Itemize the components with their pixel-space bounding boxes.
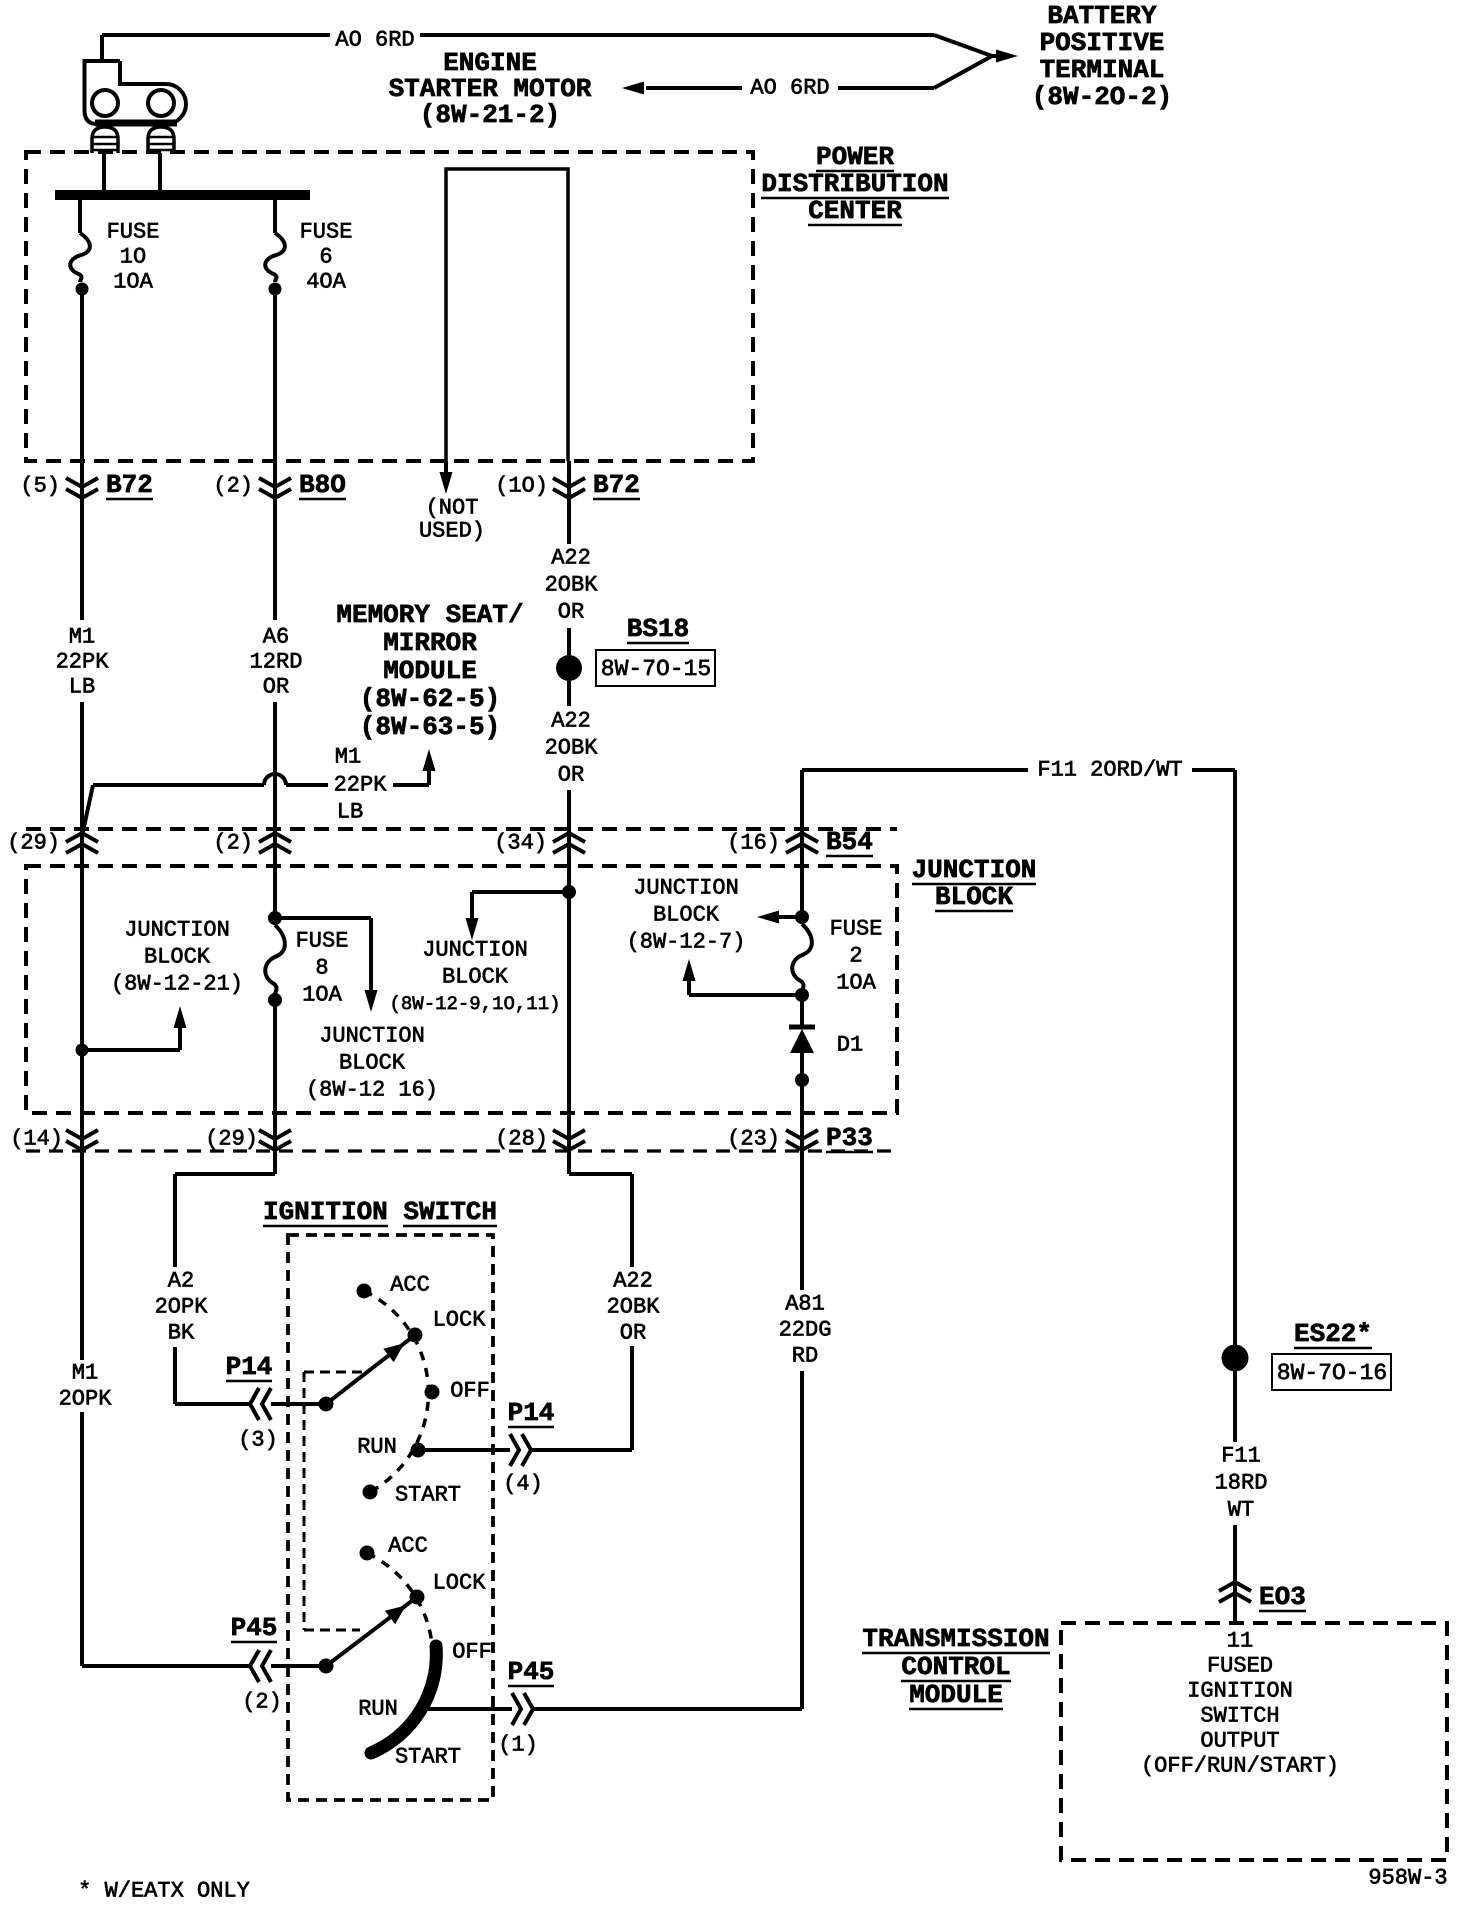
upper wafer LOCK contact xyxy=(408,1328,423,1343)
svg-text:OFF: OFF xyxy=(452,1640,492,1665)
splice dot on A22 wire xyxy=(562,885,576,899)
wire battery terminal to PDC bus xyxy=(102,153,106,191)
svg-text:POSITIVE: POSITIVE xyxy=(1040,28,1165,58)
svg-text:(16): (16) xyxy=(727,831,780,856)
svg-text:MODULE: MODULE xyxy=(383,656,477,686)
svg-text:MEMORY SEAT/: MEMORY SEAT/ xyxy=(336,600,523,630)
connector (28) chevrons xyxy=(553,1130,585,1139)
svg-text:MIRROR: MIRROR xyxy=(383,628,477,658)
upper wafer OFF contact xyxy=(425,1385,440,1400)
upper wafer RUN contact xyxy=(411,1443,426,1458)
svg-text:JUNCTION: JUNCTION xyxy=(912,855,1037,885)
PDC bus bar xyxy=(55,190,310,200)
ignition switch inner dashed corner xyxy=(304,1371,367,1374)
svg-text:BLOCK: BLOCK xyxy=(442,965,509,990)
reference box 8W-70-16 xyxy=(1272,1354,1391,1390)
lower wafer LOCK contact xyxy=(410,1590,425,1605)
svg-text:OR: OR xyxy=(263,675,289,700)
svg-text:FUSED: FUSED xyxy=(1207,1654,1273,1679)
splice dot above fuse 8 xyxy=(268,911,282,925)
svg-text:1OA: 1OA xyxy=(302,983,342,1008)
wire A6 12RD OR xyxy=(273,702,277,920)
svg-text:OFF: OFF xyxy=(450,1379,490,1404)
svg-text:IGNITION SWITCH: IGNITION SWITCH xyxy=(263,1197,497,1227)
svg-text:(3): (3) xyxy=(238,1428,278,1453)
svg-text:1O: 1O xyxy=(120,245,146,270)
svg-text:(8W-63-5): (8W-63-5) xyxy=(360,712,500,742)
connector (29) chevrons xyxy=(66,833,98,842)
svg-text:B8O: B8O xyxy=(299,470,346,500)
svg-text:LB: LB xyxy=(69,675,95,700)
lower wafer ACC contact xyxy=(360,1546,375,1561)
svg-text:22PK: 22PK xyxy=(334,773,388,798)
svg-text:START: START xyxy=(395,1483,461,1508)
splice dot below fuse 2 xyxy=(795,988,809,1002)
svg-text:AO 6RD: AO 6RD xyxy=(335,28,414,53)
arrow up to 8W-12-7 label xyxy=(689,993,802,997)
svg-text:(28): (28) xyxy=(495,1127,548,1152)
svg-text:(8W-12 16): (8W-12 16) xyxy=(306,1078,438,1103)
svg-text:2OBK: 2OBK xyxy=(545,573,599,598)
svg-text:2OPK: 2OPK xyxy=(59,1387,113,1412)
connector B80 cavity 2 chevrons xyxy=(259,478,291,487)
svg-text:(OFF/RUN/START): (OFF/RUN/START) xyxy=(1141,1754,1339,1779)
wire RUN to P14 cavity 4 xyxy=(418,1448,510,1452)
upper wafer wiper pivot xyxy=(319,1397,334,1412)
wire M1 22PK LB xyxy=(80,702,84,1360)
svg-text:BK: BK xyxy=(168,1321,195,1346)
upper wafer wiper arm to LOCK xyxy=(326,1335,415,1404)
connector E03 chevrons xyxy=(1219,1582,1251,1591)
svg-text:(8W-12-21): (8W-12-21) xyxy=(111,972,243,997)
wire fuse6 to connector B80(2) xyxy=(273,289,277,620)
svg-text:(1O): (1O) xyxy=(495,474,548,499)
svg-text:P33: P33 xyxy=(826,1123,873,1153)
wire A0 6RD battery feed (top) xyxy=(102,33,330,37)
svg-text:JUNCTION: JUNCTION xyxy=(124,918,230,943)
svg-text:FUSE: FUSE xyxy=(830,917,883,942)
svg-text:LOCK: LOCK xyxy=(433,1308,487,1333)
lower wafer wiper arm to LOCK xyxy=(326,1597,417,1666)
wire A22 20BK OR to ignition switch xyxy=(532,1448,632,1452)
junction dot below fuse 10 xyxy=(76,283,89,296)
svg-text:22PK: 22PK xyxy=(56,650,110,675)
connector (29) chevrons bottom xyxy=(259,1130,291,1139)
svg-text:(34): (34) xyxy=(494,831,547,856)
svg-text:(29): (29) xyxy=(205,1127,258,1152)
svg-text:BS18: BS18 xyxy=(627,614,689,644)
svg-text:(1): (1) xyxy=(498,1733,538,1758)
svg-text:4OA: 4OA xyxy=(306,270,346,295)
svg-text:CENTER: CENTER xyxy=(808,196,902,226)
svg-text:BLOCK: BLOCK xyxy=(339,1051,406,1076)
svg-text:TRANSMISSION: TRANSMISSION xyxy=(862,1624,1049,1654)
transmission control module dashed box xyxy=(1061,1623,1447,1860)
wire fuse10 to connector B72(5) xyxy=(80,289,84,620)
Power Distribution Center dashed box xyxy=(26,152,753,461)
battery positive terminal connector symbol xyxy=(85,61,187,153)
splice dot on M1 wire xyxy=(76,1044,89,1057)
svg-text:11: 11 xyxy=(1227,1629,1253,1654)
svg-text:(NOT: (NOT xyxy=(426,496,479,521)
svg-text:1OA: 1OA xyxy=(113,270,153,295)
connector B72 cavity 10 chevrons xyxy=(553,478,585,487)
svg-text:DISTRIBUTION: DISTRIBUTION xyxy=(761,169,948,199)
svg-text:BATTERY: BATTERY xyxy=(1047,1,1157,31)
svg-text:M1: M1 xyxy=(69,625,95,650)
svg-text:START: START xyxy=(395,1745,461,1770)
svg-text:(23): (23) xyxy=(727,1127,780,1152)
svg-text:BLOCK: BLOCK xyxy=(935,882,1013,912)
lower wafer wiper pivot xyxy=(319,1659,334,1674)
splice dot below diode xyxy=(795,1073,809,1087)
svg-text:WT: WT xyxy=(1228,1498,1254,1523)
svg-text:(29): (29) xyxy=(7,831,60,856)
wire F11 18RD WT xyxy=(1233,1371,1237,1442)
connector P33 cavity 23 chevrons xyxy=(786,1130,818,1139)
svg-text:RUN: RUN xyxy=(358,1697,398,1722)
splice ES22 xyxy=(1222,1345,1249,1372)
svg-text:FUSE: FUSE xyxy=(107,220,160,245)
svg-text:* W/EATX ONLY: * W/EATX ONLY xyxy=(78,1879,250,1904)
svg-text:A22: A22 xyxy=(551,546,591,571)
svg-text:22DG: 22DG xyxy=(779,1318,832,1343)
wire RUN strip to P45 cavity 1 xyxy=(428,1707,512,1711)
junction dot below fuse 6 xyxy=(269,283,282,296)
svg-text:1OA: 1OA xyxy=(836,971,876,996)
wire M1 branch to memory seat module xyxy=(93,783,264,787)
connector B54 cavity 16 chevrons xyxy=(786,833,818,842)
svg-text:12RD: 12RD xyxy=(250,650,303,675)
svg-text:(4): (4) xyxy=(503,1472,543,1497)
connector (34) chevrons xyxy=(553,833,585,842)
svg-text:2: 2 xyxy=(849,944,862,969)
svg-text:MODULE: MODULE xyxy=(909,1680,1003,1710)
connector row dashed line (junction block bottom) xyxy=(26,1149,897,1152)
svg-text:JUNCTION: JUNCTION xyxy=(633,876,739,901)
svg-text:(14): (14) xyxy=(10,1127,63,1152)
svg-text:P45: P45 xyxy=(508,1657,555,1687)
svg-text:2OPK: 2OPK xyxy=(155,1295,209,1320)
svg-text:958W-3: 958W-3 xyxy=(1368,1866,1447,1891)
wire A0 6RD to engine starter motor xyxy=(646,86,742,90)
svg-text:A22: A22 xyxy=(613,1269,653,1294)
svg-text:(8W-62-5): (8W-62-5) xyxy=(360,684,500,714)
arrow to junction block 8W-12-21 xyxy=(82,1048,180,1052)
svg-text:FUSE: FUSE xyxy=(296,929,349,954)
svg-text:AO 6RD: AO 6RD xyxy=(750,76,829,101)
svg-text:IGNITION: IGNITION xyxy=(1187,1679,1293,1704)
connector (14) chevrons xyxy=(66,1130,98,1139)
arrow to engine starter motor xyxy=(622,82,644,95)
svg-text:ACC: ACC xyxy=(390,1273,430,1298)
connector B72 cavity 5 chevrons xyxy=(66,478,98,487)
wire A22 20BK OR lower xyxy=(567,681,571,706)
arrow to junction block 8W-12-7 (left) xyxy=(777,915,803,919)
svg-text:OR: OR xyxy=(558,763,584,788)
junction block dashed box xyxy=(26,866,897,1113)
fuse 8 (10A) element xyxy=(265,925,285,995)
svg-text:18RD: 18RD xyxy=(1215,1471,1268,1496)
svg-text:B54: B54 xyxy=(826,827,873,857)
wire A2 20PK BK xyxy=(175,1172,275,1176)
svg-text:P45: P45 xyxy=(231,1613,278,1643)
svg-text:P14: P14 xyxy=(226,1352,273,1382)
wire A22 20BK OR upper xyxy=(567,461,571,544)
svg-text:8W-7O-16: 8W-7O-16 xyxy=(1277,1360,1387,1386)
svg-text:JUNCTION: JUNCTION xyxy=(319,1024,425,1049)
svg-text:TERMINAL: TERMINAL xyxy=(1040,55,1165,85)
connector row dashed line (junction block top) xyxy=(26,827,897,831)
svg-text:OR: OR xyxy=(558,600,584,625)
svg-text:A81: A81 xyxy=(785,1292,825,1317)
wire to ignition switch wiper xyxy=(271,1402,326,1406)
upper wafer ACC contact xyxy=(357,1284,372,1299)
wire F11 20RD/WT xyxy=(800,770,804,917)
arrow not-used cavity xyxy=(444,461,448,478)
svg-text:M1: M1 xyxy=(72,1361,98,1386)
arrow to battery positive terminal xyxy=(996,50,1018,63)
diode D1 xyxy=(800,995,804,1029)
PDC internal rectangle (not used cavity) xyxy=(446,169,568,461)
svg-text:B72: B72 xyxy=(593,470,640,500)
ignition switch lower wafer position arc xyxy=(367,1553,432,1644)
svg-text:P14: P14 xyxy=(508,1398,555,1428)
arrow to memory seat module xyxy=(427,769,431,785)
svg-text:(8W-12-9,1O,11): (8W-12-9,1O,11) xyxy=(389,993,560,1015)
connector (2) chevrons xyxy=(259,833,291,842)
fuse 2 (10A) element xyxy=(792,924,812,992)
svg-text:B72: B72 xyxy=(106,470,153,500)
svg-text:A2: A2 xyxy=(168,1269,194,1294)
reference box 8W-70-15 xyxy=(596,650,715,686)
lower wafer contact strip OFF-RUN-START xyxy=(371,1646,436,1753)
svg-text:2OBK: 2OBK xyxy=(545,736,599,761)
arrow to junction block 8W-12-9,10,11 xyxy=(472,890,569,894)
svg-text:ACC: ACC xyxy=(388,1534,428,1559)
wire to lower wiper xyxy=(271,1664,326,1668)
svg-text:ES22*: ES22* xyxy=(1294,1319,1372,1349)
svg-text:EO3: EO3 xyxy=(1259,1582,1306,1612)
svg-text:M1: M1 xyxy=(335,745,361,770)
svg-text:A6: A6 xyxy=(263,625,289,650)
svg-text:(2): (2) xyxy=(213,831,253,856)
wire diode to connector (23) xyxy=(800,1080,804,1290)
svg-text:RUN: RUN xyxy=(357,1435,397,1460)
svg-text:USED): USED) xyxy=(419,519,485,544)
upper wafer START contact xyxy=(363,1485,378,1500)
svg-text:SWITCH: SWITCH xyxy=(1200,1704,1279,1729)
wire M1 20PK xyxy=(80,1412,84,1666)
svg-text:2OBK: 2OBK xyxy=(607,1295,661,1320)
fuse 10 (10A) element xyxy=(78,200,82,233)
svg-text:(8W-12-7): (8W-12-7) xyxy=(627,930,746,955)
wire fuse 8 to connector (29) xyxy=(273,1000,277,1174)
splice dot above fuse 2 xyxy=(795,910,809,924)
svg-text:JUNCTION: JUNCTION xyxy=(422,938,528,963)
svg-text:(8W-2O-2): (8W-2O-2) xyxy=(1032,82,1172,112)
splice BS18 xyxy=(556,655,582,681)
connector P14 cavity 4 chevrons xyxy=(510,1434,519,1466)
svg-text:LOCK: LOCK xyxy=(433,1571,487,1596)
svg-text:RD: RD xyxy=(792,1344,818,1369)
arrow to junction block 8W-12-16 xyxy=(275,916,371,920)
connector P14 cavity 3 chevrons xyxy=(250,1388,259,1420)
svg-text:OUTPUT: OUTPUT xyxy=(1200,1729,1279,1754)
svg-text:(8W-21-2): (8W-21-2) xyxy=(420,100,560,130)
svg-text:BLOCK: BLOCK xyxy=(653,903,720,928)
svg-text:6: 6 xyxy=(319,245,332,270)
ignition switch dashed box xyxy=(288,1235,493,1800)
svg-text:8: 8 xyxy=(315,956,328,981)
svg-text:8W-7O-15: 8W-7O-15 xyxy=(601,656,711,682)
connector P45 cavity 1 chevrons xyxy=(512,1693,521,1725)
svg-text:A22: A22 xyxy=(551,709,591,734)
splice dot below fuse 8 xyxy=(268,993,282,1007)
svg-text:POWER: POWER xyxy=(816,142,894,172)
svg-text:OR: OR xyxy=(620,1321,646,1346)
ignition switch upper wafer position arc xyxy=(364,1291,428,1492)
svg-text:(2): (2) xyxy=(242,1690,282,1715)
fuse 6 (40A) element xyxy=(273,200,277,233)
svg-text:D1: D1 xyxy=(837,1033,863,1058)
svg-text:(2): (2) xyxy=(213,474,253,499)
svg-text:FUSE: FUSE xyxy=(300,220,353,245)
connector P45 cavity 2 chevrons xyxy=(250,1650,259,1682)
svg-text:LB: LB xyxy=(337,800,363,825)
svg-text:CONTROL: CONTROL xyxy=(901,1652,1010,1682)
svg-text:BLOCK: BLOCK xyxy=(144,945,211,970)
svg-text:F11: F11 xyxy=(1221,1444,1261,1469)
svg-text:F11 2ORD/WT: F11 2ORD/WT xyxy=(1037,758,1182,783)
wire A81 22DG RD xyxy=(534,1707,802,1711)
svg-text:(5): (5) xyxy=(20,474,60,499)
